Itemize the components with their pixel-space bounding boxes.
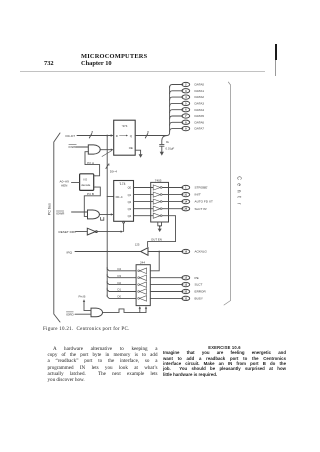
- svg-text:IORD: IORD: [66, 313, 75, 317]
- svg-text:D0–D7: D0–D7: [66, 134, 76, 138]
- svg-text:n: n: [236, 190, 242, 193]
- latch U1 '374: [114, 120, 136, 155]
- wire: fan-out bus riser: [167, 87, 170, 136]
- svg-text:125: 125: [135, 243, 140, 247]
- wire IORD to G3: [75, 313, 91, 315]
- svg-text:OUT EN: OUT EN: [151, 237, 162, 241]
- wire RESET DRV: [76, 231, 88, 233]
- svg-text:14: 14: [184, 201, 187, 204]
- svg-text:'174: '174: [119, 182, 125, 186]
- svg-text:ACKNLG: ACKNLG: [195, 250, 208, 254]
- svg-text:STROBE': STROBE': [195, 186, 209, 190]
- chapter: [81, 60, 112, 67]
- svg-text:PE: PE: [195, 276, 199, 280]
- svg-text:8: 8: [185, 120, 187, 124]
- svg-text:DATA2: DATA2: [195, 95, 205, 99]
- bus width slash 8 (output): [145, 130, 149, 138]
- svg-text:IRQ: IRQ: [67, 250, 73, 254]
- svg-text:Q0: Q0: [128, 186, 132, 190]
- svg-text:Prt B: Prt B: [79, 294, 86, 298]
- wire ACKNLG to U6 input: [150, 252, 159, 271]
- PC bus bracket: [54, 133, 60, 322]
- wire: latch output bus: [135, 135, 167, 137]
- svg-text:10: 10: [184, 251, 187, 254]
- header rule: [20, 71, 265, 72]
- body text left column: [48, 346, 158, 384]
- svg-text:8: 8: [92, 130, 94, 134]
- svg-text:36: 36: [184, 208, 187, 211]
- svg-text:12: 12: [184, 277, 187, 280]
- wire reset to U3: [97, 230, 123, 232]
- svg-text:D4: D4: [118, 267, 122, 271]
- wire D bus drop to U6: [106, 197, 108, 296]
- svg-text:D: D: [116, 134, 118, 138]
- wire: data fan branches: [170, 85, 183, 132]
- svg-text:Q1: Q1: [128, 193, 132, 197]
- svg-text:32: 32: [184, 291, 187, 294]
- svg-text:2: 2: [185, 83, 187, 87]
- connector pins STROBE INIT AUTOFD SLCTIN: [182, 185, 213, 211]
- svg-text:D0–4: D0–4: [116, 195, 123, 199]
- bus width slash 8 (input): [89, 130, 93, 138]
- svg-text:D2: D2: [118, 281, 122, 285]
- svg-text:IOWR: IOWR: [56, 212, 65, 216]
- svg-text:INIT': INIT': [195, 193, 202, 197]
- wires U4 outputs to control pins: [162, 188, 183, 209]
- svg-text:AEN: AEN: [61, 184, 67, 188]
- wire IRQ line: [75, 251, 141, 253]
- svg-text:SLCT IN': SLCT IN': [195, 207, 208, 211]
- node OUT EN label: [151, 237, 162, 241]
- wires U3 outputs to U4: [134, 188, 153, 216]
- svg-text:244: 244: [140, 261, 145, 265]
- svg-text:e: e: [236, 183, 242, 186]
- wire IOWR to G1: [77, 146, 88, 148]
- node Prt A label: [87, 161, 95, 165]
- svg-text:Q4: Q4: [128, 214, 132, 218]
- svg-text:ERROR: ERROR: [195, 290, 207, 294]
- svg-text:11: 11: [184, 297, 187, 300]
- buffer U5 125: [141, 248, 148, 256]
- svg-text:DATA5: DATA5: [195, 114, 205, 118]
- node IORD label: [66, 312, 75, 317]
- svg-text:Prt B: Prt B: [87, 192, 94, 196]
- decoder U2 I/O decode: [80, 174, 96, 191]
- wire PrtB net: [84, 187, 100, 216]
- node A0-A9 AEN label: [60, 179, 70, 187]
- svg-text:decode: decode: [81, 183, 91, 187]
- connector pins PE SLCT ERROR BUSY: [182, 276, 207, 301]
- svg-text:D1: D1: [118, 288, 122, 292]
- svg-text:D0: D0: [118, 295, 122, 299]
- svg-text:8: 8: [147, 130, 149, 134]
- node Prt B reference arrow: [83, 299, 91, 310]
- wire readback fan: [107, 267, 136, 298]
- wire G3 output to U6 enables (with pulse symbol): [103, 306, 148, 312]
- ground (U4): [158, 222, 162, 232]
- svg-text:BUSY: BUSY: [195, 297, 203, 301]
- wire OUT EN net: [148, 216, 176, 247]
- svg-text:AUTO FD XT: AUTO FD XT: [195, 200, 213, 204]
- node IOWR label (2nd): [56, 211, 65, 216]
- U5 designator: [135, 243, 140, 247]
- wire: D0-D7 data bus into latch: [77, 134, 113, 136]
- capacitor C1 branch: [160, 136, 167, 152]
- wire PrtA loop: [85, 152, 100, 176]
- svg-text:6: 6: [185, 108, 187, 112]
- svg-text:DATA3: DATA3: [195, 102, 205, 106]
- connector pin ACKNLG: [182, 249, 208, 253]
- node IOWR label: [69, 144, 78, 149]
- svg-text:Q2: Q2: [128, 200, 132, 204]
- svg-text:DATA1: DATA1: [195, 89, 205, 93]
- svg-text:DATA7: DATA7: [195, 127, 205, 131]
- svg-text:D0–4: D0–4: [110, 169, 118, 173]
- node Prt B label: [87, 192, 94, 196]
- bus width slash 5: [106, 163, 110, 169]
- svg-text:Prt A: Prt A: [87, 161, 95, 165]
- PC bus label: [48, 203, 52, 215]
- svg-text:7405: 7405: [155, 178, 162, 182]
- inverter G4: RESET DRV: [87, 228, 97, 235]
- svg-text:IOWR: IOWR: [69, 145, 78, 149]
- svg-text:'374: '374: [122, 124, 128, 128]
- svg-text:3: 3: [185, 89, 187, 93]
- svg-text:DATA4: DATA4: [195, 108, 205, 112]
- gate G1: IOWR and PrtA: [88, 145, 100, 154]
- svg-text:C: C: [236, 176, 242, 180]
- Centronics label (vertical): [236, 176, 242, 204]
- svg-text:Q: Q: [130, 134, 133, 138]
- figure caption: [43, 327, 130, 332]
- svg-text:OE: OE: [129, 146, 133, 150]
- wire IOWR to G2: [72, 211, 88, 213]
- svg-text:31: 31: [184, 194, 187, 197]
- svg-text:5: 5: [185, 101, 187, 105]
- svg-text:r: r: [236, 203, 242, 205]
- body text right column: [163, 345, 286, 377]
- node D0-4 label: [110, 169, 118, 173]
- wire G1 output to latch clock: [100, 149, 113, 157]
- latch U1 OE ground: [135, 150, 142, 158]
- svg-text:D3: D3: [118, 274, 122, 278]
- U3 reset pin: [123, 221, 125, 231]
- svg-text:SLCT: SLCT: [195, 283, 203, 287]
- svg-text:4: 4: [185, 95, 187, 99]
- page number: [44, 60, 54, 67]
- node RESET DRV label: [59, 230, 78, 234]
- svg-text:Q3: Q3: [128, 207, 132, 211]
- svg-text:RESET DRV: RESET DRV: [59, 230, 78, 234]
- svg-text:0.01μF: 0.01μF: [166, 147, 175, 151]
- wire G2 output to U3 clock: [99, 213, 113, 220]
- node IRQ label: [67, 250, 73, 254]
- svg-text:t: t: [236, 196, 242, 198]
- svg-text:1: 1: [185, 187, 187, 190]
- svg-text:7: 7: [185, 114, 187, 118]
- header running title: [81, 53, 147, 60]
- node D4..D0 labels: [118, 267, 122, 299]
- svg-text:DATA0: DATA0: [195, 83, 205, 87]
- latch U3 '174: [114, 181, 134, 222]
- gate G3: IORD and PrtB read strobe: [91, 308, 103, 317]
- svg-text:DATA6: DATA6: [195, 120, 205, 124]
- svg-text:5: 5: [108, 163, 110, 167]
- connector pins DATA0..DATA7: [182, 82, 204, 130]
- wires U6 inputs from status pins: [150, 278, 183, 299]
- driver U4 7405: [151, 178, 169, 222]
- wire address to decoder: [72, 182, 80, 184]
- buffer U6 '244: [136, 261, 150, 306]
- svg-text:PC bus: PC bus: [48, 203, 52, 215]
- Centronics connector bracket: [224, 82, 231, 305]
- node D0-D7 label: [66, 134, 76, 138]
- ground (capacitor): [160, 152, 164, 156]
- capacitor value label: [166, 140, 175, 151]
- svg-text:I/O: I/O: [83, 177, 88, 181]
- svg-text:9: 9: [185, 127, 187, 131]
- margin tick mark: [275, 44, 277, 60]
- gate G2: IOWR and PrtB: [88, 210, 100, 219]
- wire D0-4 drop to U3: [106, 135, 113, 197]
- svg-text:9x: 9x: [166, 140, 170, 144]
- svg-text:13: 13: [184, 284, 187, 287]
- wire buffer input from ACKNLG: [148, 251, 183, 253]
